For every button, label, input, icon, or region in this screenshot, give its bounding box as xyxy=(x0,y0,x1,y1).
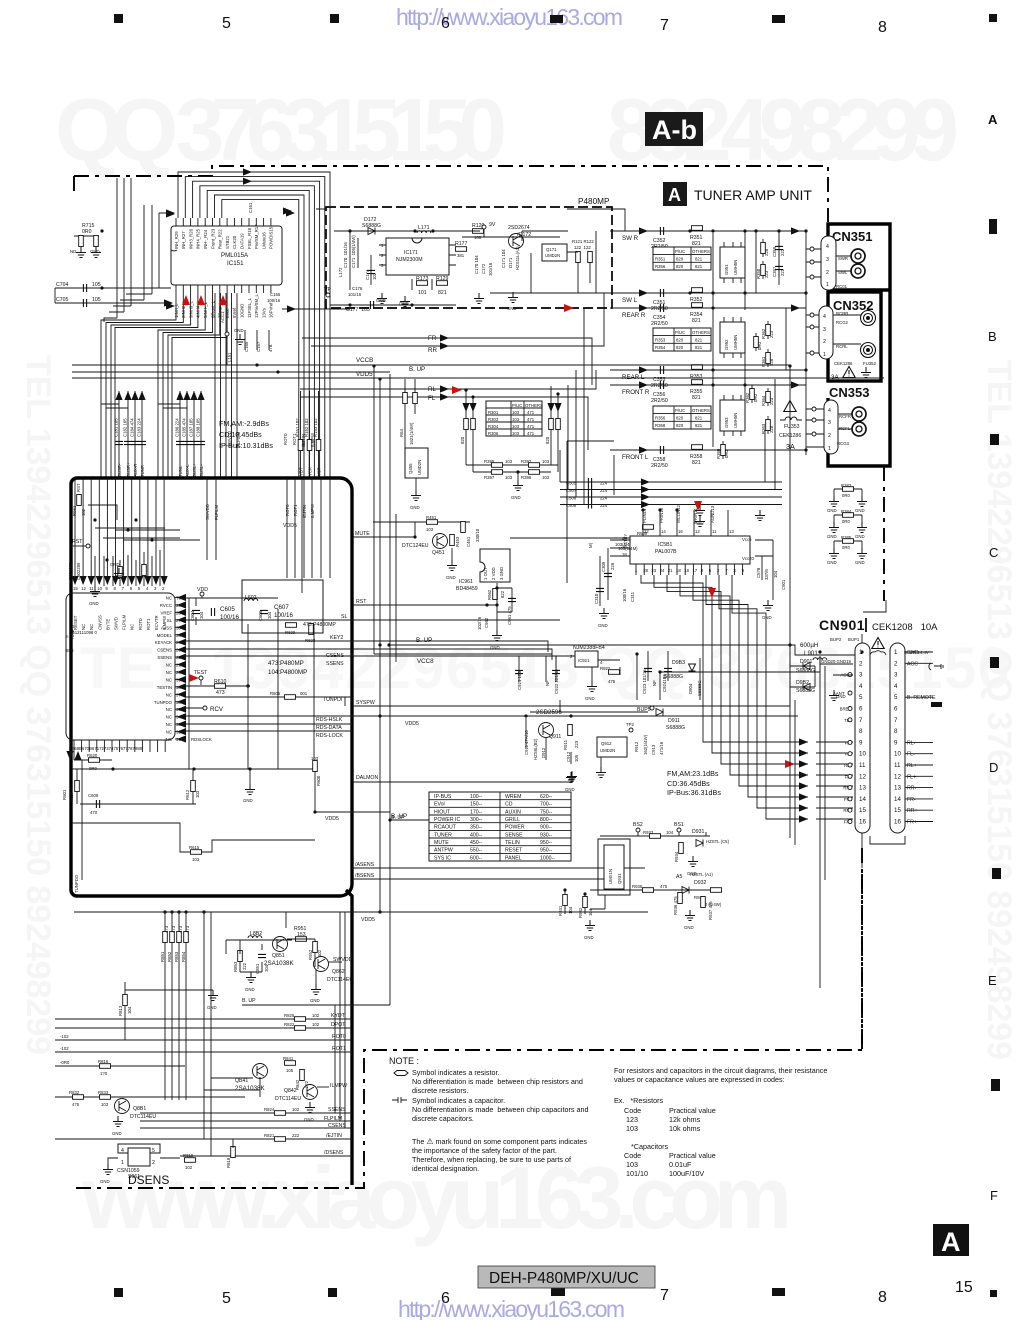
svg-text:C170 104: C170 104 xyxy=(474,255,479,274)
vertical drops xyxy=(204,1077,260,1144)
svg-text:RL-: RL- xyxy=(907,740,916,746)
svg-text:R934: R934 xyxy=(674,851,679,862)
svg-text:FLPILM: FLPILM xyxy=(214,505,219,520)
svg-text:NC: NC xyxy=(166,707,172,712)
svg-text:550--: 550-- xyxy=(470,848,482,854)
svg-text:950--: 950-- xyxy=(540,848,552,854)
svg-text:SSENS: SSENS xyxy=(328,1107,346,1113)
svg-text:C604: C604 xyxy=(190,610,195,621)
svg-text:C923 101/16: C923 101/16 xyxy=(642,669,647,694)
svg-text:36: 36 xyxy=(176,700,181,705)
svg-text:103: 103 xyxy=(512,424,520,429)
GND cluster right of IC581 xyxy=(695,505,705,516)
svg-text:2: 2 xyxy=(823,339,826,345)
wire FL xyxy=(300,397,588,450)
svg-text:103: 103 xyxy=(512,417,520,422)
wire RL xyxy=(300,370,596,389)
svg-text:R852: R852 xyxy=(167,951,172,962)
resistor R615 xyxy=(72,823,315,852)
svg-text:1512111098 0: 1512111098 0 xyxy=(70,630,97,635)
svg-text:102: 102 xyxy=(312,1022,320,1027)
svg-text:GRILL: GRILL xyxy=(505,817,520,823)
svg-text:UMX1N: UMX1N xyxy=(608,869,613,884)
svg-text:0R0: 0R0 xyxy=(842,519,850,524)
svg-text:VP: VP xyxy=(324,287,331,293)
svg-text:http://www.xiaoyu163.com: http://www.xiaoyu163.com xyxy=(396,4,623,30)
svg-text:30: 30 xyxy=(176,685,181,690)
svg-text:CN353: CN353 xyxy=(829,385,869,400)
svg-text:23: 23 xyxy=(176,648,181,653)
svg-text:TUNL: TUNL xyxy=(178,465,183,477)
svg-text:15: 15 xyxy=(73,586,78,591)
capacitor C187 xyxy=(193,391,195,478)
svg-text:0R0: 0R0 xyxy=(842,493,850,498)
svg-text:2R2/50: 2R2/50 xyxy=(651,306,668,312)
svg-text:TUNPDI: TUNPDI xyxy=(323,697,342,703)
svg-text:/BSENS: /BSENS xyxy=(355,873,375,879)
svg-text:R853: R853 xyxy=(233,961,238,972)
svg-text:21: 21 xyxy=(176,663,181,668)
wire RDS-LOCK xyxy=(185,730,352,732)
svg-text:A-b: A-b xyxy=(652,115,697,145)
svg-text:GND: GND xyxy=(585,696,595,701)
wire VCCB xyxy=(72,364,790,366)
jack RCRL xyxy=(861,343,876,358)
svg-text:FL+: FL+ xyxy=(907,774,916,780)
svg-text:discrete resistors.: discrete resistors. xyxy=(412,1086,468,1095)
svg-text:6: 6 xyxy=(441,15,450,32)
svg-text:UMH5N: UMH5N xyxy=(733,335,738,350)
wire RR xyxy=(311,308,604,346)
svg-text:350--: 350-- xyxy=(470,825,482,831)
svg-text:RR: RR xyxy=(428,347,437,354)
svg-text:101/10: 101/10 xyxy=(626,1169,648,1178)
svg-text:FSEL_R18: FSEL_R18 xyxy=(247,227,252,249)
svg-text:POWDIS15: POWDIS15 xyxy=(269,226,274,249)
switch S961 CSN1059 xyxy=(118,1144,160,1153)
svg-text:R935: R935 xyxy=(632,884,643,889)
svg-text:C155: C155 xyxy=(270,292,281,297)
svg-text:TUNR: TUNR xyxy=(140,465,145,477)
svg-text:SYS IC: SYS IC xyxy=(434,855,451,861)
svg-text:8: 8 xyxy=(878,1289,887,1306)
svg-text:103: 103 xyxy=(505,475,513,480)
svg-text:Q842: Q842 xyxy=(284,1088,297,1094)
svg-text:BD48459: BD48459 xyxy=(456,586,478,592)
svg-text:C188 105: C188 105 xyxy=(196,418,201,437)
svg-text:820: 820 xyxy=(676,416,684,421)
svg-text:19: 19 xyxy=(684,568,689,573)
capacitor C354 xyxy=(660,304,663,312)
svg-text:ROT0: ROT0 xyxy=(285,504,290,516)
svg-text:GND: GND xyxy=(243,798,253,803)
svg-text:POWER: POWER xyxy=(505,825,525,831)
svg-text:821: 821 xyxy=(695,345,703,350)
svg-text:MODEL: MODEL xyxy=(157,633,173,638)
svg-text:GND: GND xyxy=(110,562,120,567)
svg-text:L151: L151 xyxy=(227,352,232,362)
svg-text:22: 22 xyxy=(176,655,181,660)
svg-text:GND: GND xyxy=(684,925,694,930)
svg-text:0R0: 0R0 xyxy=(82,229,92,235)
svg-text:SW R: SW R xyxy=(622,235,639,242)
svg-text:POWER IC: POWER IC xyxy=(434,817,460,823)
svg-text:STBY: STBY xyxy=(623,534,628,545)
svg-text:GND: GND xyxy=(245,987,255,992)
svg-text:475: 475 xyxy=(608,679,616,684)
svg-text:IC151: IC151 xyxy=(227,260,244,267)
resistor R962 xyxy=(493,589,498,600)
svg-text:ACC: ACC xyxy=(907,661,918,667)
svg-text:104: 104 xyxy=(127,1006,132,1014)
svg-text:24: 24 xyxy=(660,568,665,573)
svg-text:CNVSS: CNVSS xyxy=(97,615,102,630)
transistor Q451 DTC124EU xyxy=(373,522,470,537)
svg-text:R397: R397 xyxy=(484,475,495,480)
svg-text:224: 224 xyxy=(600,488,608,493)
svg-text:NC: NC xyxy=(166,678,172,683)
svg-text:FRONT R: FRONT R xyxy=(622,389,650,396)
svg-text:the importance of the safety f: the importance of the safety factor of t… xyxy=(412,1146,557,1155)
svg-text:RESET: RESET xyxy=(505,848,523,854)
svg-text:E: E xyxy=(988,973,997,988)
svg-text:R813: R813 xyxy=(118,1005,123,1016)
svg-text:14: 14 xyxy=(661,529,666,534)
svg-text:R362: R362 xyxy=(745,392,750,403)
svg-text:GND: GND xyxy=(399,301,409,306)
svg-text:2SA1038K: 2SA1038K xyxy=(235,1085,265,1092)
svg-text:9V: 9V xyxy=(489,222,496,228)
svg-text:1: 1 xyxy=(828,446,831,452)
svg-text:C182 105: C182 105 xyxy=(123,418,128,437)
svg-text:R360: R360 xyxy=(716,448,721,459)
stubs to CN352 xyxy=(806,315,819,353)
svg-text:473:P480MP: 473:P480MP xyxy=(268,660,304,667)
svg-text:GND: GND xyxy=(234,328,244,333)
svg-text:C506: C506 xyxy=(566,496,577,501)
svg-text:ROT0: ROT0 xyxy=(138,618,143,630)
svg-text:100--: 100-- xyxy=(470,794,482,800)
svg-text:Q911: Q911 xyxy=(549,734,561,740)
svg-text:RDS-HSLK: RDS-HSLK xyxy=(316,717,343,723)
resistor R851 xyxy=(164,912,166,1100)
svg-text:HZS6L(B2): HZS6L(B2) xyxy=(533,738,538,760)
svg-text:0R0: 0R0 xyxy=(89,766,97,771)
wire feeders xyxy=(101,404,187,408)
capacitor C181 xyxy=(118,391,120,478)
capacitor C351 xyxy=(660,289,663,297)
resistor R355 xyxy=(692,380,703,385)
svg-text:R937 475: R937 475 xyxy=(708,901,713,920)
svg-text:SSENS: SSENS xyxy=(157,655,172,660)
connector CN353 pins xyxy=(824,400,838,454)
svg-text:R854: R854 xyxy=(181,951,186,962)
svg-text:103: 103 xyxy=(512,410,520,415)
wire SW L feed vertical xyxy=(596,231,604,308)
svg-text:STB21: STB21 xyxy=(225,235,230,249)
wire SSENS xyxy=(140,1112,352,1114)
svg-text:R819: R819 xyxy=(183,1153,194,1158)
svg-text:3: 3 xyxy=(894,672,898,679)
connector body CN901 xyxy=(855,643,870,833)
svg-text:BUSR+: BUSR+ xyxy=(126,462,131,477)
svg-text:HZSTL (A1): HZSTL (A1) xyxy=(690,872,713,877)
svg-text:CSENS: CSENS xyxy=(157,648,172,653)
svg-text:SSENS: SSENS xyxy=(326,661,344,667)
svg-text:R824: R824 xyxy=(264,1107,275,1112)
svg-text:L901: L901 xyxy=(804,650,818,657)
resistor R354 xyxy=(692,303,703,308)
svg-text:2: 2 xyxy=(859,660,863,667)
svg-text:FRONT L: FRONT L xyxy=(622,454,649,461)
svg-text:100uF/10V: 100uF/10V xyxy=(669,1169,704,1178)
jack SWL xyxy=(851,264,865,278)
jack RCFL xyxy=(852,422,866,436)
svg-text:Vcc5: Vcc5 xyxy=(742,537,752,542)
diode D903 xyxy=(637,654,660,700)
svg-text:B. UP: B. UP xyxy=(409,366,425,373)
transistor Q912 UMD2N xyxy=(597,737,627,757)
svg-text:BYTE: BYTE xyxy=(105,619,110,630)
svg-text:4: 4 xyxy=(121,1148,124,1154)
svg-text:GND: GND xyxy=(827,508,837,513)
svg-text:GND: GND xyxy=(855,560,865,565)
svg-text:800--: 800-- xyxy=(540,817,552,823)
svg-text:CD:36.45dBs: CD:36.45dBs xyxy=(667,779,710,788)
resistor R930 xyxy=(711,888,722,893)
resistor R951 xyxy=(296,937,307,942)
svg-text:RC01: RC01 xyxy=(836,284,848,289)
svg-text:MUTE: MUTE xyxy=(355,531,370,537)
svg-text:CLK20: CLK20 xyxy=(232,235,237,249)
svg-text:Q931: Q931 xyxy=(617,873,622,884)
svg-text:NJM2300M: NJM2300M xyxy=(396,257,423,263)
svg-text:VREF: VREF xyxy=(161,610,173,615)
svg-text:KEYACK: KEYACK xyxy=(155,640,172,645)
svg-text:SYSPW: SYSPW xyxy=(356,700,375,706)
wire KYDT xyxy=(55,1018,352,1020)
svg-text:821: 821 xyxy=(695,416,703,421)
capacitor C352 xyxy=(660,227,663,235)
svg-text:31: 31 xyxy=(176,737,181,742)
svg-text:NOTE :: NOTE : xyxy=(389,1056,419,1066)
svg-text:TUNER: TUNER xyxy=(434,832,452,838)
svg-text:S6888G: S6888G xyxy=(664,674,683,680)
capacitor C310 xyxy=(599,556,601,606)
svg-text:R177: R177 xyxy=(455,241,468,247)
svg-text:R605: R605 xyxy=(270,691,281,696)
svg-text:153: 153 xyxy=(297,932,306,938)
svg-text:GND: GND xyxy=(598,623,608,628)
svg-text:2: 2 xyxy=(828,433,831,439)
svg-text:UMH5N: UMH5N xyxy=(733,413,738,428)
wire stubs right of C50x caps xyxy=(641,508,644,511)
svg-text:R301: R301 xyxy=(488,410,499,415)
svg-text:No differentiation is made be: No differentiation is made between chip … xyxy=(412,1105,588,1114)
svg-text:123: 123 xyxy=(626,1115,638,1124)
svg-text:100/16: 100/16 xyxy=(622,588,627,602)
wire NJM2388 outputs xyxy=(660,652,820,700)
svg-text:34: 34 xyxy=(176,715,181,720)
svg-text:R821: R821 xyxy=(264,1133,275,1138)
IC151 PML015A xyxy=(171,226,282,285)
svg-text:R952: R952 xyxy=(308,949,313,960)
label A TUNER AMP UNIT xyxy=(663,182,812,206)
svg-text:INH3_R26: INH3_R26 xyxy=(188,228,193,249)
svg-text:104:P4800MP: 104:P4800MP xyxy=(268,669,307,676)
svg-text:TP2: TP2 xyxy=(626,722,634,727)
svg-text:224: 224 xyxy=(600,481,608,486)
svg-text:163(1/4M): 163(1/4M) xyxy=(618,546,638,551)
svg-text:222: 222 xyxy=(242,962,247,970)
svg-text:Pre/SM_R17: Pre/SM_R17 xyxy=(254,224,259,249)
svg-text:10: 10 xyxy=(97,586,102,591)
svg-text:FM,AM:-2.9dBs: FM,AM:-2.9dBs xyxy=(219,419,269,428)
svg-text:FL-: FL- xyxy=(907,752,915,758)
svg-text:S6888G: S6888G xyxy=(796,668,815,674)
svg-text:103: 103 xyxy=(542,459,550,464)
svg-text:FU353: FU353 xyxy=(784,424,800,430)
capacitor C358 xyxy=(660,446,663,454)
wire /BSENS xyxy=(352,878,605,880)
svg-text:CEK1208 10A: CEK1208 10A xyxy=(872,622,938,633)
svg-text:DSENS: DSENS xyxy=(128,1173,169,1187)
svg-text:8: 8 xyxy=(878,19,887,36)
svg-text:4: 4 xyxy=(826,244,829,250)
ground xyxy=(249,769,251,784)
svg-text:27: 27 xyxy=(176,618,181,623)
svg-text:Q451: Q451 xyxy=(432,550,445,556)
wire FL/RL fan 2 xyxy=(654,575,808,753)
svg-text:P/UC: P/UC xyxy=(512,403,522,408)
svg-text:104: 104 xyxy=(199,611,204,619)
svg-text:INH-_R24: INH-_R24 xyxy=(203,229,208,249)
svg-text:R607: R607 xyxy=(69,791,74,802)
capacitor C508 xyxy=(560,504,782,506)
svg-text:GND: GND xyxy=(376,298,386,303)
capacitor C183 xyxy=(141,391,143,478)
svg-text:8: 8 xyxy=(894,728,898,735)
fuse FU353 xyxy=(780,417,802,420)
resistor R961 xyxy=(77,495,82,506)
svg-text:G953: G953 xyxy=(724,417,729,428)
svg-text:Q912: Q912 xyxy=(601,741,612,746)
9V supply xyxy=(482,225,486,229)
ground xyxy=(508,292,518,303)
svg-text:NJM2388FB4: NJM2388FB4 xyxy=(573,645,605,651)
svg-text:ROT1: ROT1 xyxy=(332,1046,346,1052)
svg-text:RST: RST xyxy=(72,539,83,545)
svg-text:PAL007B: PAL007B xyxy=(655,549,677,555)
svg-text:D: D xyxy=(989,760,998,775)
svg-text:R825: R825 xyxy=(284,1013,295,1018)
svg-text:VCK: VCK xyxy=(308,467,313,476)
svg-text:-102: -102 xyxy=(60,1046,69,1051)
svg-text:D911: D911 xyxy=(668,718,680,724)
svg-text:HIOUT: HIOUT xyxy=(434,809,451,815)
svg-text:102: 102 xyxy=(317,949,322,957)
svg-text:RVCC: RVCC xyxy=(160,603,172,608)
svg-text:VDD5: VDD5 xyxy=(361,917,375,923)
svg-text:6: 6 xyxy=(894,706,898,713)
svg-text:GND: GND xyxy=(694,520,704,525)
transistor Q841 2SA1038K xyxy=(253,1064,268,1079)
svg-text:UMD2N: UMD2N xyxy=(545,253,560,258)
wire /ASENS xyxy=(352,867,645,869)
svg-text:R615: R615 xyxy=(189,845,200,850)
svg-text:NC: NC xyxy=(166,663,172,668)
svg-text:7: 7 xyxy=(660,1287,669,1304)
svg-text:37: 37 xyxy=(176,692,181,697)
svg-text:IC921: IC921 xyxy=(578,658,590,663)
svg-text:32: 32 xyxy=(176,730,181,735)
svg-text:104: 104 xyxy=(267,611,272,619)
svg-text:WREM: WREM xyxy=(505,794,521,800)
svg-text:FM,AM:23.1dBs: FM,AM:23.1dBs xyxy=(667,769,719,778)
svg-text:L602: L602 xyxy=(245,595,257,601)
svg-text:TUNPDO: TUNPDO xyxy=(154,700,173,705)
svg-text:REAR R: REAR R xyxy=(622,312,646,319)
svg-text:RCFR: RCFR xyxy=(839,414,851,419)
svg-text:R354: R354 xyxy=(655,345,666,350)
svg-text:RR-: RR- xyxy=(907,786,916,792)
svg-text:13: 13 xyxy=(859,785,866,792)
svg-text:16: 16 xyxy=(894,819,901,826)
svg-text:14: 14 xyxy=(894,796,901,803)
vertical rails xyxy=(374,366,396,1005)
svg-text:ILMPW: ILMPW xyxy=(330,1083,347,1089)
svg-text:473: 473 xyxy=(178,925,183,933)
svg-text:101/16: 101/16 xyxy=(488,262,493,276)
svg-text:102: 102 xyxy=(292,1107,300,1112)
svg-text:SL: SL xyxy=(341,614,347,620)
wire FL/RL fan 6 xyxy=(706,575,808,797)
resistor R64 xyxy=(403,393,408,404)
svg-text:5: 5 xyxy=(222,1290,231,1307)
svg-text:471/16: 471/16 xyxy=(659,741,664,755)
svg-text:222: 222 xyxy=(780,268,785,276)
svg-text:471: 471 xyxy=(527,424,535,429)
svg-text:CSENS: CSENS xyxy=(328,1123,346,1129)
svg-text:CEK1286: CEK1286 xyxy=(834,361,853,366)
svg-text:For resistors and capacitors i: For resistors and capacitors in the circ… xyxy=(614,1066,827,1075)
svg-text:CN351: CN351 xyxy=(832,229,872,244)
svg-text:473: 473 xyxy=(185,925,190,933)
svg-text:RST: RST xyxy=(76,483,81,492)
svg-text:104: 104 xyxy=(264,964,269,972)
svg-text:R395: R395 xyxy=(484,459,495,464)
arrows on loops xyxy=(243,168,252,175)
capacitor C604 xyxy=(192,610,200,613)
svg-text:9: 9 xyxy=(859,739,863,746)
svg-text:R853: R853 xyxy=(174,951,179,962)
svg-text:VDD5: VDD5 xyxy=(283,523,297,529)
svg-text:8: 8 xyxy=(859,728,863,735)
connector CN352 pins xyxy=(819,306,833,359)
svg-text:-0R0: -0R0 xyxy=(60,1060,70,1065)
svg-text:3: 3 xyxy=(828,420,831,426)
svg-text:820: 820 xyxy=(676,423,684,428)
resistor R173 xyxy=(412,279,432,290)
svg-text:Front_R23: Front_R23 xyxy=(210,228,215,249)
svg-text:GND: GND xyxy=(89,601,99,606)
svg-text:105: 105 xyxy=(286,1068,294,1073)
svg-text:Q851: Q851 xyxy=(272,953,285,959)
svg-text:R353: R353 xyxy=(655,338,666,343)
svg-text:C962: C962 xyxy=(484,617,489,628)
svg-text:C602289: C602289 xyxy=(76,562,81,580)
svg-text:P/UC: P/UC xyxy=(675,408,685,413)
